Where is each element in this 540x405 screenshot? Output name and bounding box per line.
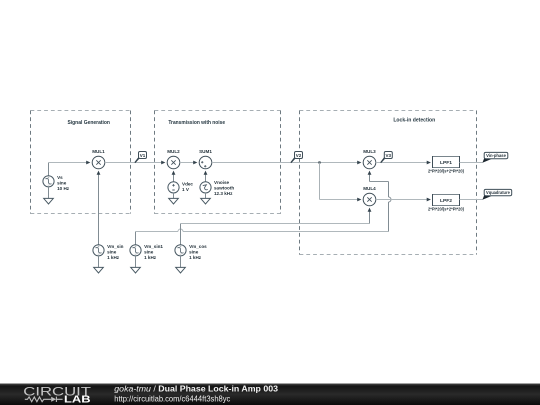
svg-text:MUL4: MUL4 bbox=[363, 186, 376, 191]
svg-text:1 V: 1 V bbox=[182, 187, 190, 192]
arrow into LPF2 input bbox=[427, 198, 431, 202]
summer SUM1 bbox=[199, 149, 212, 169]
ground below Vnoise bbox=[201, 198, 211, 204]
arrow into MUL1 bottom input bbox=[97, 171, 101, 175]
arrow into MUL4 left input bbox=[357, 198, 361, 202]
voltage source Vm_sin bbox=[93, 244, 124, 260]
CircuitLab logo diode bbox=[51, 397, 56, 402]
wire Vnoise to ground bbox=[205, 193, 207, 198]
arrow into SUM1 bottom input bbox=[204, 171, 208, 175]
svg-text:12.3 kHz: 12.3 kHz bbox=[214, 191, 233, 196]
svg-text:Vin-phase: Vin-phase bbox=[486, 153, 506, 158]
wire SUM1 to MUL3 bbox=[212, 162, 359, 164]
svg-text:2*PI*20/(s+2*PI*20): 2*PI*20/(s+2*PI*20) bbox=[428, 169, 465, 174]
svg-text:Vs: Vs bbox=[57, 175, 63, 180]
multiplier MUL4 bbox=[363, 186, 376, 206]
output flag Vquadrature bbox=[482, 189, 511, 199]
ground below Vm_sin1 bbox=[131, 267, 141, 273]
box Lock-in detection bbox=[300, 111, 477, 255]
ground below Vm_sin bbox=[94, 267, 104, 273]
svg-text:Vm_sin: Vm_sin bbox=[107, 244, 124, 249]
svg-text:sawtooth: sawtooth bbox=[214, 186, 234, 191]
ground below Vs bbox=[44, 198, 54, 204]
ground below Vm_cos bbox=[176, 267, 186, 273]
filter block LPF1 bbox=[428, 156, 465, 174]
svg-text:SUM1: SUM1 bbox=[199, 149, 212, 154]
wire Vm_sin to ground bbox=[98, 256, 100, 268]
wire Vm_cos reference to MUL4 bottom bbox=[181, 210, 370, 245]
svg-text:V1: V1 bbox=[140, 153, 146, 158]
arrow into MUL2 left input bbox=[161, 161, 165, 165]
arrow into SUM1 left input bbox=[193, 161, 197, 165]
wire MUL2 to SUM1 bbox=[180, 162, 195, 164]
svg-text:2*PI*20/(s+2*PI*20): 2*PI*20/(s+2*PI*20) bbox=[428, 207, 465, 212]
svg-text:Signal Generation: Signal Generation bbox=[67, 120, 110, 126]
svg-text:1 kHz: 1 kHz bbox=[189, 255, 202, 260]
wire Vs to MUL1 bbox=[49, 163, 89, 176]
svg-text:1 kHz: 1 kHz bbox=[107, 255, 120, 260]
svg-text:MUL2: MUL2 bbox=[167, 149, 180, 154]
svg-text:Vm_sin1: Vm_sin1 bbox=[144, 244, 163, 249]
svg-text:Vm_cos: Vm_cos bbox=[189, 244, 207, 249]
svg-text:sine: sine bbox=[107, 249, 117, 254]
wire MUL4 to LPF2 bbox=[376, 199, 429, 201]
wire Vdc to ground bbox=[173, 193, 175, 198]
multiplier MUL2 bbox=[167, 149, 180, 169]
svg-text:LPF1: LPF1 bbox=[440, 160, 453, 165]
box Transmission with noise bbox=[155, 111, 281, 214]
svg-text:1 kHz: 1 kHz bbox=[144, 255, 157, 260]
wire Vm_sin1 reference toward MUL3 bbox=[183, 202, 389, 232]
wire Vm_sin1 to ground bbox=[135, 256, 137, 268]
svg-text:Vquadrature: Vquadrature bbox=[486, 190, 510, 195]
svg-text:sine: sine bbox=[57, 180, 67, 185]
arrow into MUL3 bottom input bbox=[368, 171, 372, 175]
voltage source Vs bbox=[43, 175, 70, 191]
voltage source Vm_cos bbox=[175, 244, 207, 260]
node junction on main wire bbox=[318, 161, 320, 163]
arrow into LPF1 input bbox=[427, 161, 431, 165]
filter block LPF2 bbox=[428, 194, 465, 212]
arrow into MUL2 bottom input bbox=[172, 171, 176, 175]
wire MUL3 to LPF1 bbox=[376, 162, 429, 164]
svg-text:Lock-in detection: Lock-in detection bbox=[393, 117, 435, 123]
svg-text:10 Hz: 10 Hz bbox=[57, 186, 70, 191]
svg-text:sine: sine bbox=[144, 249, 154, 254]
wire LPF1 to Vin-phase flag bbox=[460, 162, 483, 164]
wire Vdc to MUL2 bottom bbox=[173, 173, 175, 182]
wire Vm_sin to MUL1 bottom bbox=[98, 173, 100, 245]
ground below Vdc bbox=[169, 198, 179, 204]
svg-text:V2: V2 bbox=[296, 153, 302, 158]
voltage source Vdc bbox=[168, 182, 194, 193]
wire MUL1 to MUL2 bbox=[105, 162, 163, 164]
wire Vnoise to SUM1 bottom bbox=[205, 173, 207, 182]
svg-text:http://circuitlab.com/c6444ft3: http://circuitlab.com/c6444ft3sh8yc bbox=[114, 394, 230, 403]
voltage source Vnoise sawtooth bbox=[200, 180, 234, 196]
arrow into MUL3 left input bbox=[357, 161, 361, 165]
CircuitLab logo resistor-diode squiggle bbox=[25, 397, 51, 402]
arrow into MUL1 left input bbox=[86, 161, 90, 165]
output flag Vin-phase bbox=[482, 152, 507, 162]
multiplier MUL1 bbox=[92, 149, 105, 169]
svg-text:Vdec: Vdec bbox=[182, 182, 193, 187]
box Signal Generation bbox=[31, 111, 131, 214]
voltmeter flag V1 bbox=[134, 152, 146, 164]
multiplier MUL3 bbox=[363, 149, 376, 169]
wire Vm_sin1 up to crossing bbox=[136, 232, 179, 245]
svg-text:LAB: LAB bbox=[64, 395, 91, 405]
svg-text:Transmission with noise: Transmission with noise bbox=[168, 120, 225, 126]
svg-text:goka-tmu / Dual Phase Lock-in: goka-tmu / Dual Phase Lock-in Amp 003 bbox=[114, 385, 278, 394]
svg-text:V3: V3 bbox=[386, 153, 392, 158]
svg-text:MUL1: MUL1 bbox=[92, 149, 105, 154]
footer bar bbox=[0, 384, 540, 405]
svg-text:Vnoise: Vnoise bbox=[214, 180, 230, 185]
arrow into MUL4 bottom input bbox=[368, 208, 372, 212]
wire Vm_cos to ground bbox=[180, 256, 182, 268]
svg-text:sine: sine bbox=[189, 249, 199, 254]
svg-text:MUL3: MUL3 bbox=[363, 149, 376, 154]
wire junction down to MUL4 bbox=[320, 163, 360, 200]
wire hop where Vm_sin1 wire crosses Vm_cos wire bbox=[178, 229, 183, 232]
voltmeter flag V2 bbox=[290, 152, 302, 164]
voltage source Vm_sin1 bbox=[130, 244, 164, 260]
wire MUL3 reference from hop to MUL3 bottom bbox=[370, 173, 389, 197]
wire hop where MUL3 ref crosses MUL4 output bbox=[389, 197, 392, 202]
svg-text:LPF2: LPF2 bbox=[440, 198, 453, 203]
wire Vs to ground bbox=[48, 187, 50, 199]
wire LPF2 to Vquadrature flag bbox=[460, 199, 483, 201]
voltmeter flag V3 bbox=[380, 152, 392, 164]
